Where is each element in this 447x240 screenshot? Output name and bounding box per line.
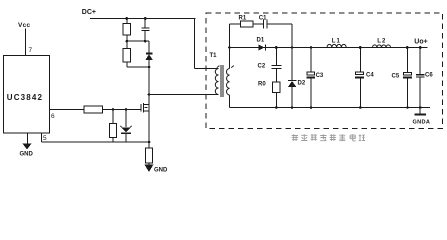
svg-text:C5: C5 xyxy=(392,74,400,80)
transformer T1 core xyxy=(221,65,223,97)
ground GNDA symbol xyxy=(419,108,421,115)
svg-text:GNDA: GNDA xyxy=(413,120,431,126)
svg-text:D1: D1 xyxy=(257,38,265,44)
svg-text:GND: GND xyxy=(20,152,34,158)
capacitor C5 label xyxy=(392,74,400,80)
resistor R0 label xyxy=(258,82,266,88)
wire drain to transformer primary xyxy=(149,94,219,96)
wire secondary top riser xyxy=(229,24,231,69)
transformer T1 primary winding xyxy=(215,69,218,95)
resistor snubber R upper xyxy=(126,19,128,24)
ground IC GND text xyxy=(20,152,34,158)
svg-text:C1: C1 xyxy=(259,16,267,22)
pin 5 wire drop xyxy=(41,133,43,142)
resistor current sense xyxy=(148,142,150,148)
svg-text:GND: GND xyxy=(154,168,168,174)
diode D2 label xyxy=(298,81,306,87)
transistor Q1 MOSFET xyxy=(140,104,142,112)
node dot C4 tap xyxy=(359,46,362,49)
wire C1 to return drop xyxy=(267,24,292,48)
node dot drain tee xyxy=(148,93,151,96)
U1 label UC3842 xyxy=(7,93,43,102)
op-amp U1 UC3842 box xyxy=(4,56,50,134)
wire current sense (pin5 to source) xyxy=(42,141,150,143)
svg-text:C2: C2 xyxy=(258,64,266,70)
svg-text:L1: L1 xyxy=(332,38,341,44)
svg-text:C3: C3 xyxy=(316,73,324,79)
inductor L2 label xyxy=(377,38,386,44)
capacitor snubber C xyxy=(144,19,146,29)
node gate junction dots xyxy=(112,108,115,111)
node dot D2 rail junction xyxy=(291,46,294,49)
capacitor C6 xyxy=(419,48,421,75)
diode zener gate protection xyxy=(125,110,127,128)
node dot rail snubber cap xyxy=(144,17,147,20)
svg-text:UC3842: UC3842 xyxy=(7,93,43,102)
capacitor C5 polarized xyxy=(406,48,408,73)
node dot C2 tap xyxy=(275,46,278,49)
node CS junction xyxy=(148,141,151,144)
svg-text:L2: L2 xyxy=(377,38,386,44)
node dot C6 tap xyxy=(419,46,422,49)
svg-text:6: 6 xyxy=(51,113,55,120)
resistor gate pulldown xyxy=(112,110,114,124)
capacitor C2 label xyxy=(258,64,266,70)
node DC+ label xyxy=(82,9,96,16)
resistor R1 label xyxy=(239,16,247,22)
node Vcc label xyxy=(18,22,31,29)
capacitor C3 label xyxy=(316,73,324,79)
node Uo+ output label xyxy=(414,39,427,46)
svg-text:C6: C6 xyxy=(425,73,433,79)
inductor L1 xyxy=(327,44,346,47)
node dot C5 tap xyxy=(406,46,409,49)
wire gate resistor to MOSFET gate xyxy=(103,109,142,111)
svg-text:Vcc: Vcc xyxy=(18,22,31,29)
capacitor C4 polarized xyxy=(359,48,361,73)
wire DC+ rail xyxy=(90,18,196,20)
ground GNDA text xyxy=(413,120,431,126)
node dot riser/rail junction xyxy=(228,46,231,49)
svg-text:DC+: DC+ xyxy=(82,9,96,16)
wire node A horizontal xyxy=(127,40,149,42)
capacitor C4 label xyxy=(366,73,374,79)
svg-text:R0: R0 xyxy=(258,82,266,88)
wire secondary bottom to ground rail xyxy=(229,95,231,108)
node dot rail R startup xyxy=(125,17,128,20)
capacitor C1 label xyxy=(259,16,267,22)
wire IC ground pin xyxy=(27,133,29,144)
svg-text:R1: R1 xyxy=(239,16,247,22)
transformer T1 secondary winding xyxy=(226,69,229,96)
capacitor C2 xyxy=(275,48,277,66)
diode D2 (cathode up) xyxy=(291,48,293,81)
capacitor C3 polarized xyxy=(310,48,312,73)
inductor L1 label xyxy=(332,38,341,44)
pin 7 label xyxy=(29,47,33,54)
diode D1 xyxy=(259,45,265,51)
node dot clamp/R2 join xyxy=(148,66,151,69)
wire Vcc to IC pin 7 xyxy=(25,29,27,56)
node dots on ground rail xyxy=(275,106,278,109)
svg-text:D2: D2 xyxy=(298,81,306,87)
ground sense resistor arrow xyxy=(145,165,154,173)
node dots on node A xyxy=(126,40,129,43)
wire secondary ground rail xyxy=(230,107,431,109)
wire secondary output rail xyxy=(230,47,428,49)
wire R1 to C1 xyxy=(253,23,263,25)
svg-text:T1: T1 xyxy=(210,53,218,59)
capacitor C1 xyxy=(264,20,267,29)
svg-text:C4: C4 xyxy=(366,73,374,79)
capacitor C6 label xyxy=(425,73,433,79)
diode clamp (cathode up) xyxy=(148,41,150,53)
resistor R1 xyxy=(241,21,254,27)
wire snubber top row left xyxy=(230,23,241,25)
resistor R0 xyxy=(273,82,281,93)
resistor gate series xyxy=(84,106,103,113)
diode D1 label xyxy=(257,38,265,44)
inductor L2 xyxy=(372,45,390,48)
wire DC+ corner down to transformer xyxy=(195,19,219,69)
transformer phase marks xyxy=(217,66,220,68)
svg-text:Uo+: Uo+ xyxy=(414,39,427,46)
pin 6 wire from IC xyxy=(50,109,85,111)
ground IC GND arrow xyxy=(23,144,32,150)
transformer T1 label xyxy=(210,53,218,59)
pin 6 label xyxy=(51,113,55,120)
pin 5 label xyxy=(43,135,47,142)
resistor snubber R lower xyxy=(126,41,128,48)
dashed box output filter xyxy=(206,13,443,129)
svg-text:5: 5 xyxy=(43,135,47,142)
caption output filter (chinese, simulated) xyxy=(292,134,366,141)
node dot C3 tap xyxy=(310,46,313,49)
svg-text:7: 7 xyxy=(29,47,33,54)
ground sense GND text xyxy=(154,168,168,174)
